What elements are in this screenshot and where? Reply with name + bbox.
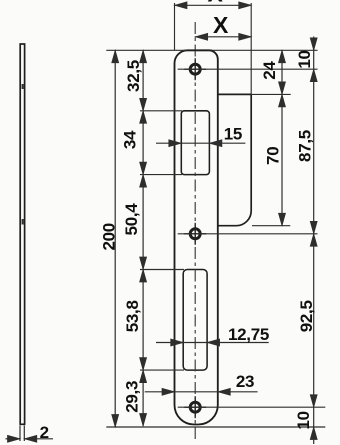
hole 3 centre extension line (178, 406, 326, 408)
screw hole 1 cross marks (194, 58, 196, 80)
lip box top extension line (251, 93, 291, 95)
dim 2 line right (24, 438, 53, 440)
plate left edge top extension (174, 3, 176, 50)
svg-text:23: 23 (236, 372, 254, 391)
svg-text:X: X (207, 0, 223, 7)
dim line X (195, 36, 251, 38)
vertical centre line (194, 22, 196, 442)
svg-text:50,4: 50,4 (122, 203, 141, 236)
right chain dim line (313, 37, 315, 445)
hole 1 centre extension line (178, 68, 318, 70)
svg-text:12,75: 12,75 (228, 325, 269, 344)
side view hole mark upper (22, 84, 24, 89)
hole 2 centre extension line (178, 233, 318, 235)
plate bottom rounded end (175, 405, 218, 425)
svg-text:10: 10 (294, 411, 313, 429)
screw hole 1 (190, 64, 200, 74)
svg-text:32,5: 32,5 (124, 60, 143, 92)
left chain dim line (142, 50, 144, 426)
thickness dim extension lines (19, 426, 21, 442)
side view hole mark lower (22, 219, 24, 225)
screw hole 2 cross marks (194, 223, 196, 245)
screw hole 3 cross marks (194, 396, 196, 418)
svg-text:2: 2 (40, 423, 49, 442)
dim 12,75 line (156, 342, 269, 344)
lower cutout bottom extension (140, 369, 184, 371)
svg-text:70: 70 (263, 147, 282, 165)
screw hole 2 (190, 229, 200, 239)
svg-text:29,3: 29,3 (122, 381, 141, 413)
lower cutout top extension (140, 269, 184, 271)
lip box right edge (218, 94, 251, 225)
svg-text:92,5: 92,5 (297, 300, 316, 332)
top edge extension line (106, 49, 317, 51)
plate top edge emphasis (186, 49, 212, 51)
upper cutout bottom extension (140, 174, 182, 176)
upper cutout top extension (140, 110, 182, 112)
dim 15 line (156, 142, 245, 144)
svg-text:15: 15 (224, 125, 242, 144)
lower cutout 12.75mm (183, 270, 207, 371)
dim 23 line (145, 391, 258, 393)
dim 2 line left (6, 438, 20, 440)
svg-text:53,8: 53,8 (123, 300, 142, 332)
svg-text:34: 34 (121, 130, 140, 149)
top dim line (cut off) (175, 4, 252, 6)
upper cutout 15mm (181, 111, 209, 175)
lip box top edge (218, 93, 251, 95)
svg-text:87,5: 87,5 (296, 130, 315, 162)
plate outline front view (175, 50, 218, 405)
dim line 200 (114, 50, 116, 427)
svg-text:X: X (213, 12, 229, 38)
side view plate (thickness view) (20, 44, 24, 424)
lip box right edge top extension (250, 3, 252, 94)
svg-text:24: 24 (260, 61, 279, 80)
screw hole 3 (190, 402, 200, 412)
dim line 24 and 70 (281, 50, 283, 225)
bottom edge extension line (106, 426, 325, 428)
svg-text:10: 10 (295, 50, 314, 68)
lip box bottom extension line (252, 225, 290, 227)
svg-text:200: 200 (99, 223, 118, 250)
